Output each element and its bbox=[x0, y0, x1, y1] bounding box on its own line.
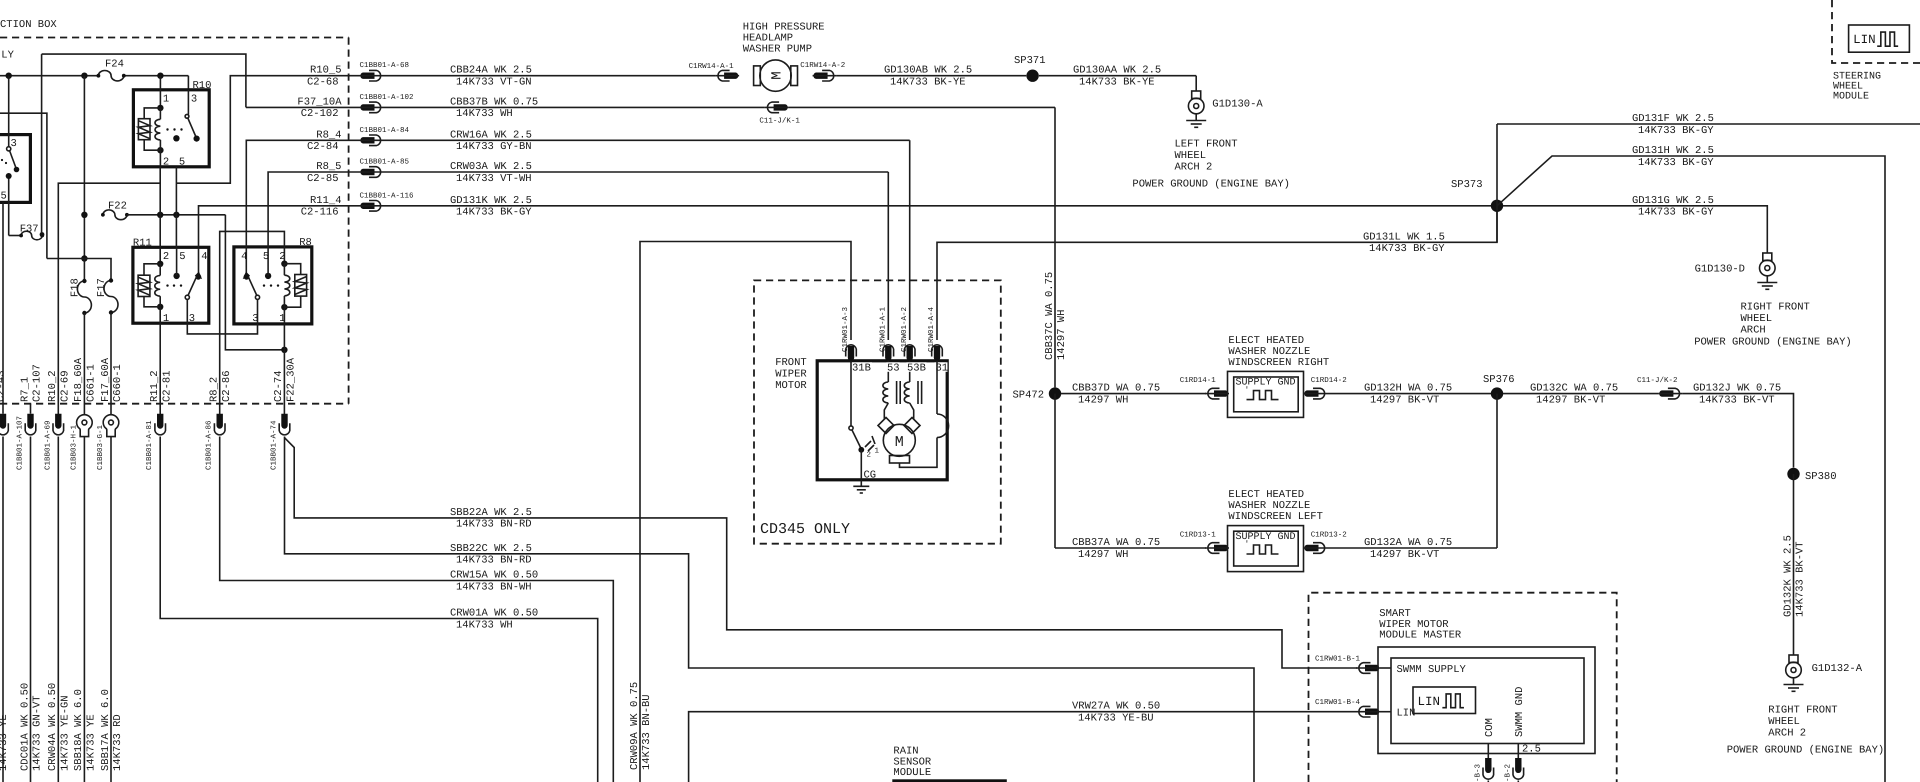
connector C1RD13-1 bbox=[1180, 531, 1229, 554]
splice SP472 bbox=[1012, 387, 1061, 548]
connector C1BB01-A-116 bbox=[360, 191, 415, 211]
svg-text:14K733 GY-BN: 14K733 GY-BN bbox=[456, 141, 532, 153]
svg-text:R10_2: R10_2 bbox=[47, 370, 59, 402]
svg-text:GD131H WK 2.5: GD131H WK 2.5 bbox=[1632, 145, 1714, 157]
svg-text:CRW03A WK 2.5: CRW03A WK 2.5 bbox=[450, 161, 532, 173]
SWMM COM pin bbox=[1484, 718, 1496, 758]
svg-text:GD131K WK 2.5: GD131K WK 2.5 bbox=[450, 195, 532, 207]
wire CBB37B bbox=[384, 96, 765, 120]
svg-text:14K733 YE-BU: 14K733 YE-BU bbox=[1078, 713, 1154, 725]
svg-text:14K733 YE: 14K733 YE bbox=[0, 714, 10, 771]
svg-text:C1RW14-A-1: C1RW14-A-1 bbox=[689, 62, 735, 71]
connector C1RW14-A-1 bbox=[689, 62, 740, 81]
svg-text:SP371: SP371 bbox=[1014, 55, 1046, 67]
svg-text:R8_4: R8_4 bbox=[316, 129, 341, 141]
svg-text:C1BB01-A-69: C1BB01-A-69 bbox=[43, 420, 52, 470]
wire CRW16A bbox=[384, 129, 910, 153]
svg-text:4: 4 bbox=[201, 251, 207, 263]
wire LY supply feed to F37_10A row bbox=[42, 54, 246, 107]
svg-text:C660-1: C660-1 bbox=[112, 364, 124, 402]
svg-text:2: 2 bbox=[163, 251, 169, 263]
svg-text:C2-85: C2-85 bbox=[307, 173, 339, 185]
splice SP380 bbox=[1787, 468, 1836, 483]
connector C1BB01-A-86 bbox=[205, 414, 225, 470]
svg-text:53B: 53B bbox=[907, 363, 926, 375]
svg-text:': ' bbox=[1245, 540, 1250, 549]
rain sensor module bbox=[892, 746, 1007, 782]
svg-text:F18_60A: F18_60A bbox=[73, 357, 85, 402]
svg-text:LIN: LIN bbox=[1418, 695, 1441, 709]
svg-text:53: 53 bbox=[887, 363, 900, 375]
svg-text:C1BB01-A-85: C1BB01-A-85 bbox=[360, 158, 410, 167]
elect heated washer nozzle windscreen left bbox=[1228, 489, 1323, 572]
wire SBB17A bbox=[100, 437, 124, 782]
svg-text:CRW09A WK 0.75: CRW09A WK 0.75 bbox=[629, 682, 641, 770]
svg-text:SP373: SP373 bbox=[1451, 179, 1483, 191]
wire SBB22C run bbox=[285, 437, 1255, 782]
svg-text:C1RW01-B-1: C1RW01-B-1 bbox=[1315, 655, 1361, 664]
svg-text:C1BB01-A-68: C1BB01-A-68 bbox=[360, 61, 410, 70]
svg-text:GD132A WA 0.75: GD132A WA 0.75 bbox=[1364, 537, 1452, 549]
splice SP376 bbox=[1483, 374, 1515, 548]
fuse F37 bbox=[9, 224, 45, 240]
wire main bus y=75.7 bbox=[0, 73, 188, 90]
svg-text:R8: R8 bbox=[299, 237, 312, 249]
svg-text:CTION BOX: CTION BOX bbox=[0, 19, 57, 31]
SWMM GND pin bbox=[1514, 687, 1541, 758]
svg-text:C1RD14-2: C1RD14-2 bbox=[1311, 376, 1347, 385]
svg-text:14K733 BK-GY: 14K733 BK-GY bbox=[1638, 157, 1714, 169]
svg-text:WHEEL: WHEEL bbox=[1741, 313, 1773, 325]
svg-text:14297 WH: 14297 WH bbox=[1078, 394, 1128, 406]
svg-text:CBB37A WA 0.75: CBB37A WA 0.75 bbox=[1072, 537, 1160, 549]
svg-text:14K733 BK-GY: 14K733 BK-GY bbox=[1638, 125, 1714, 137]
connector C1BB01-A-102 bbox=[360, 93, 414, 113]
svg-text:MODULE: MODULE bbox=[1833, 92, 1869, 103]
ground G1D130-A bbox=[1132, 91, 1290, 191]
wire GD131L from motor pin 31 bbox=[937, 206, 1497, 340]
svg-text:SP376: SP376 bbox=[1483, 374, 1515, 386]
wire feed from off-page left bbox=[0, 113, 112, 258]
svg-text:C1BB01-A-86: C1BB01-A-86 bbox=[205, 420, 214, 470]
wire R8 pin1 to C2-74/F22_30A bbox=[283, 324, 285, 414]
svg-text:SWMM GND: SWMM GND bbox=[1514, 687, 1526, 737]
svg-text:F17_60A: F17_60A bbox=[100, 357, 112, 402]
wire CRW03A bbox=[384, 161, 889, 185]
wire motor pin 53 feed bbox=[887, 172, 889, 340]
ground CG bbox=[853, 480, 869, 493]
svg-text:14K733 BN-WH: 14K733 BN-WH bbox=[456, 581, 532, 593]
connector C1BB01-A-81 bbox=[145, 414, 165, 470]
fuse F22 bbox=[101, 201, 129, 220]
svg-text:RIGHT FRONT: RIGHT FRONT bbox=[1768, 705, 1837, 717]
wire F37_10A row label bbox=[246, 96, 360, 120]
svg-text:MODULE MASTER: MODULE MASTER bbox=[1379, 630, 1462, 642]
connector C1RW01-A-3 bbox=[841, 306, 856, 360]
svg-text:CRW01A WK 0.50: CRW01A WK 0.50 bbox=[450, 608, 538, 620]
svg-text:F37: F37 bbox=[20, 224, 39, 236]
svg-text:SBB18A WK 6.0: SBB18A WK 6.0 bbox=[73, 689, 85, 771]
svg-text:F17: F17 bbox=[96, 278, 108, 297]
svg-text:C1BB01-A-116: C1BB01-A-116 bbox=[360, 191, 415, 200]
svg-text:14K733 BN-RD: 14K733 BN-RD bbox=[456, 555, 532, 567]
node LY supply bbox=[1, 49, 14, 61]
svg-text:M: M bbox=[895, 434, 904, 451]
svg-text:C1BB01-A-84: C1BB01-A-84 bbox=[360, 126, 410, 135]
svg-text:C1BB01-A-102: C1BB01-A-102 bbox=[360, 93, 414, 102]
svg-text:C2-102: C2-102 bbox=[301, 108, 339, 120]
svg-text:LIN: LIN bbox=[1853, 33, 1876, 47]
connector C1BB01-A-69 bbox=[43, 414, 63, 470]
CD345 dashed box bbox=[754, 280, 1001, 543]
svg-text:CBB37D WA 0.75: CBB37D WA 0.75 bbox=[1072, 383, 1160, 395]
svg-text:C1RD13-1: C1RD13-1 bbox=[1180, 531, 1217, 540]
wire CRW15A run bbox=[220, 437, 614, 782]
svg-text:C1BB03-H-1: C1BB03-H-1 bbox=[69, 424, 78, 470]
svg-text:14K733 BN-BU: 14K733 BN-BU bbox=[641, 694, 653, 770]
svg-text:R11: R11 bbox=[133, 237, 152, 249]
svg-text:14K733 BK-GY: 14K733 BK-GY bbox=[1369, 243, 1445, 255]
wire CDC01A bbox=[19, 437, 43, 782]
svg-text:WINDSCREEN LEFT: WINDSCREEN LEFT bbox=[1228, 511, 1323, 523]
connector C1RD14-1 bbox=[1180, 376, 1229, 399]
svg-text:R8_2: R8_2 bbox=[209, 377, 221, 402]
svg-text:14K733 VT-GN: 14K733 VT-GN bbox=[456, 77, 532, 89]
svg-text:C2-81: C2-81 bbox=[161, 370, 173, 402]
wire GD132C bbox=[1503, 383, 1658, 407]
wire bus drop to F22/F18 bbox=[81, 76, 87, 262]
front wiper motor bbox=[775, 357, 948, 482]
connector C1RW01-A-4 bbox=[927, 306, 942, 360]
wire motor pin 53B feed bbox=[909, 140, 911, 340]
svg-text:POWER GROUND (ENGINE BAY): POWER GROUND (ENGINE BAY) bbox=[1694, 337, 1852, 349]
connector C1RW01-B-3 bbox=[1473, 758, 1493, 782]
svg-text:F18: F18 bbox=[70, 278, 82, 297]
svg-text:14K733 YE-GN: 14K733 YE-GN bbox=[60, 695, 72, 771]
wire GD131F bbox=[1497, 113, 1920, 137]
wire R8_5 row label bbox=[307, 161, 342, 185]
svg-text:ARCH: ARCH bbox=[1741, 325, 1766, 337]
svg-text:C2-43: C2-43 bbox=[0, 370, 7, 402]
svg-text:FRONT: FRONT bbox=[775, 357, 807, 369]
svg-text:C2-68: C2-68 bbox=[307, 77, 339, 89]
wire SBB18A bbox=[73, 437, 97, 782]
svg-text:C1RW01-A-4: C1RW01-A-4 bbox=[927, 306, 936, 352]
svg-text:POWER GROUND (ENGINE BAY): POWER GROUND (ENGINE BAY) bbox=[1727, 745, 1885, 757]
wire R8 pin5 to R8_5 row bbox=[268, 172, 359, 247]
wire CBB37C bbox=[789, 107, 1069, 387]
svg-text:-B-2: -B-2 bbox=[1503, 764, 1512, 782]
splice SP373 bbox=[1451, 124, 1503, 242]
wire F22 bus bbox=[127, 212, 288, 353]
svg-text:CBB37B WK 0.75: CBB37B WK 0.75 bbox=[450, 96, 538, 108]
splice SP371 bbox=[1014, 55, 1046, 82]
svg-text:CDC01A WK 0.50: CDC01A WK 0.50 bbox=[19, 683, 31, 771]
wire R10 pin5 to R10_5 row bbox=[176, 76, 359, 215]
svg-text:CRW15A WK 0.50: CRW15A WK 0.50 bbox=[450, 570, 538, 582]
svg-text:CD345 ONLY: CD345 ONLY bbox=[760, 521, 850, 538]
svg-text:M: M bbox=[770, 71, 786, 79]
wire GD132K bbox=[1782, 474, 1806, 655]
svg-text:14K733 YE: 14K733 YE bbox=[86, 714, 98, 771]
svg-text:C1RW01-A-1: C1RW01-A-1 bbox=[879, 306, 888, 352]
steering wheel module dashed box bbox=[1832, 0, 1920, 103]
wire R11_4 row label bbox=[301, 195, 342, 219]
wire R8_4 row label bbox=[307, 129, 342, 153]
connector C1RD13-2 bbox=[1304, 531, 1347, 554]
wire GD132H bbox=[1328, 383, 1498, 407]
svg-text:C1RW14-A-2: C1RW14-A-2 bbox=[800, 61, 845, 70]
svg-text:14297 BK-VT: 14297 BK-VT bbox=[1370, 549, 1439, 561]
relay R7 (partial at left edge) bbox=[0, 76, 30, 236]
svg-text:R11_2: R11_2 bbox=[149, 370, 161, 402]
wire CBB37A bbox=[1055, 537, 1206, 561]
svg-text:GD132C WA 0.75: GD132C WA 0.75 bbox=[1530, 383, 1618, 395]
connector C1RW01-B-4 bbox=[1315, 698, 1380, 717]
svg-text:1: 1 bbox=[163, 313, 169, 325]
svg-text:14K733 WH: 14K733 WH bbox=[456, 619, 513, 631]
svg-text:POWER GROUND (ENGINE BAY): POWER GROUND (ENGINE BAY) bbox=[1132, 179, 1290, 191]
svg-text:C2-69: C2-69 bbox=[60, 370, 72, 402]
svg-text:C2-74: C2-74 bbox=[273, 370, 285, 402]
connector C1BB01-A-74 bbox=[270, 414, 290, 470]
svg-text:GD131F WK 2.5: GD131F WK 2.5 bbox=[1632, 113, 1714, 125]
wire GD131H bbox=[1497, 145, 1885, 782]
connector C1BB01-A-107 bbox=[16, 404, 36, 470]
relay R11 bbox=[133, 237, 209, 325]
svg-text:2: 2 bbox=[867, 451, 872, 460]
svg-text:G1D130-D: G1D130-D bbox=[1695, 264, 1745, 276]
wire R8 pin4 to R8_4 row bbox=[246, 140, 359, 247]
svg-text:14K733 BK-VT: 14K733 BK-VT bbox=[1795, 541, 1807, 617]
svg-text:14K733 BK-GY: 14K733 BK-GY bbox=[1638, 207, 1714, 219]
connector C2-43 (partial) bbox=[0, 414, 10, 782]
svg-text:C1RW01-B-4: C1RW01-B-4 bbox=[1315, 698, 1361, 707]
svg-text:14K733 VT-WH: 14K733 VT-WH bbox=[456, 173, 532, 185]
svg-text:1: 1 bbox=[875, 448, 880, 456]
svg-text:MOTOR: MOTOR bbox=[775, 380, 807, 392]
wire CRW09A to motor pin 31B bbox=[629, 242, 851, 782]
svg-text:GD131L WK 1.5: GD131L WK 1.5 bbox=[1363, 231, 1445, 243]
wire VRW27A bbox=[689, 701, 1356, 782]
svg-text:3: 3 bbox=[189, 313, 195, 325]
svg-text:COM: COM bbox=[1484, 718, 1496, 737]
svg-text:MODULE: MODULE bbox=[893, 767, 931, 779]
svg-text:14K733 BK-VT: 14K733 BK-VT bbox=[1699, 394, 1775, 406]
svg-text:C2-86: C2-86 bbox=[221, 370, 233, 402]
relay R10 bbox=[133, 76, 211, 169]
svg-text:GD130AA WK 2.5: GD130AA WK 2.5 bbox=[1073, 65, 1161, 77]
svg-text:14K733 RD: 14K733 RD bbox=[112, 714, 124, 771]
ground G1D130-D bbox=[1694, 253, 1852, 349]
svg-text:CBB24A WK 2.5: CBB24A WK 2.5 bbox=[450, 65, 532, 77]
wire GD131G bbox=[1503, 195, 1767, 253]
svg-text:WHEEL: WHEEL bbox=[1768, 716, 1800, 728]
svg-text:SBB17A WK 6.0: SBB17A WK 6.0 bbox=[100, 689, 112, 771]
connector C1RW01-B-2 bbox=[1503, 758, 1523, 782]
wire R10 pin2 to C2-69 and F22 bus bbox=[58, 167, 160, 414]
svg-text:R8_5: R8_5 bbox=[316, 161, 341, 173]
svg-text:SWMM SUPPLY: SWMM SUPPLY bbox=[1397, 664, 1467, 676]
svg-text:G1D130-A: G1D130-A bbox=[1212, 99, 1263, 111]
junction box dashed border bbox=[0, 19, 349, 404]
wire GD132J bbox=[1682, 383, 1793, 468]
wire GD130AB bbox=[837, 65, 1027, 89]
svg-text:R11_4: R11_4 bbox=[310, 195, 342, 207]
svg-text:14297 BK-VT: 14297 BK-VT bbox=[1370, 394, 1439, 406]
wire R11 pin1 to C2-81 bbox=[159, 323, 161, 414]
connector C1RW14-A-2 bbox=[800, 61, 845, 81]
elect heated washer nozzle windscreen right bbox=[1228, 335, 1330, 418]
wire R10_5 row label bbox=[307, 65, 342, 89]
wire CRW04A bbox=[47, 437, 71, 782]
svg-text:14K733 BK-GY: 14K733 BK-GY bbox=[456, 207, 532, 219]
svg-text:31B: 31B bbox=[852, 363, 871, 375]
wire CRW01A run bbox=[160, 437, 598, 782]
svg-text:F22: F22 bbox=[108, 201, 127, 213]
svg-text:WIPER: WIPER bbox=[775, 369, 807, 381]
svg-text:WHEEL: WHEEL bbox=[1175, 150, 1207, 162]
LIN symbol in SWMM bbox=[1413, 687, 1476, 714]
svg-text:R10: R10 bbox=[193, 80, 212, 92]
svg-text:C661-1: C661-1 bbox=[86, 364, 98, 402]
svg-text:14297 WH: 14297 WH bbox=[1056, 310, 1068, 360]
wire GD131K bbox=[384, 195, 1498, 219]
svg-text:-B-3: -B-3 bbox=[1473, 763, 1482, 782]
wire SBB22A run bbox=[285, 438, 1358, 668]
connector C1BB03-G-1 eyelet bbox=[96, 415, 119, 470]
connector C1RD14-2 bbox=[1304, 376, 1347, 399]
svg-text:C1RD13-2: C1RD13-2 bbox=[1311, 531, 1347, 540]
svg-text:C1BB01-A-74: C1BB01-A-74 bbox=[270, 420, 279, 470]
svg-text:WINDSCREEN RIGHT: WINDSCREEN RIGHT bbox=[1228, 357, 1329, 369]
svg-text:14K733 BK-YE: 14K733 BK-YE bbox=[890, 77, 966, 89]
wire F37 to LY corner bbox=[41, 54, 43, 233]
svg-text:5: 5 bbox=[179, 157, 185, 169]
svg-text:C1BB03-G-1: C1BB03-G-1 bbox=[96, 424, 105, 470]
svg-text:C11-J/K-1: C11-J/K-1 bbox=[759, 116, 800, 125]
svg-text:SP472: SP472 bbox=[1012, 390, 1044, 402]
svg-text:C2-107: C2-107 bbox=[32, 364, 44, 402]
svg-text:ARCH 2: ARCH 2 bbox=[1768, 728, 1806, 740]
svg-text:SBB22C WK 2.5: SBB22C WK 2.5 bbox=[450, 543, 532, 555]
svg-text:C11-J/K-2: C11-J/K-2 bbox=[1637, 376, 1678, 385]
svg-text:14297 BK-VT: 14297 BK-VT bbox=[1536, 394, 1605, 406]
wire CBB37D bbox=[1061, 383, 1206, 407]
svg-text:14K733 BN-RD: 14K733 BN-RD bbox=[456, 519, 532, 531]
svg-text:GD132K WK 2.5: GD132K WK 2.5 bbox=[1782, 535, 1794, 617]
svg-text:1: 1 bbox=[163, 94, 169, 106]
connector C1BB03-H-1 eyelet bbox=[69, 415, 92, 470]
svg-text:F24: F24 bbox=[105, 59, 124, 71]
connector C1BB01-A-85 bbox=[360, 158, 410, 178]
svg-text:C1BB01-A-81: C1BB01-A-81 bbox=[145, 420, 154, 470]
svg-text:ARCH 2: ARCH 2 bbox=[1175, 162, 1213, 174]
svg-text:CG: CG bbox=[864, 470, 877, 482]
svg-text:LEFT FRONT: LEFT FRONT bbox=[1175, 139, 1238, 151]
svg-text:2.5: 2.5 bbox=[1522, 744, 1541, 756]
svg-text:R10_5: R10_5 bbox=[310, 65, 342, 77]
ground G1D132-A bbox=[1727, 655, 1885, 757]
svg-text:F22_30A: F22_30A bbox=[286, 357, 298, 402]
svg-text:WASHER PUMP: WASHER PUMP bbox=[743, 44, 812, 56]
wire R7 coil pin to C2-43 bbox=[0, 202, 7, 413]
fuse F18 bbox=[70, 259, 92, 415]
fuse F17 bbox=[96, 259, 118, 415]
connector C1BB01-A-84 bbox=[360, 126, 410, 146]
wire R8 pin3 to R11 pin3 link bbox=[187, 323, 257, 334]
svg-text:14K733 BK-YE: 14K733 BK-YE bbox=[1079, 77, 1155, 89]
svg-text:14K733 GN-VT: 14K733 GN-VT bbox=[32, 695, 44, 771]
svg-text:LY: LY bbox=[1, 49, 14, 61]
relay R8 bbox=[234, 237, 312, 325]
connector C1BB01-A-68 bbox=[360, 61, 410, 81]
svg-text:C1BB01-A-107: C1BB01-A-107 bbox=[16, 416, 25, 470]
svg-text:SP380: SP380 bbox=[1805, 471, 1837, 483]
svg-text:14297 WH: 14297 WH bbox=[1078, 549, 1128, 561]
svg-text:5: 5 bbox=[179, 251, 185, 263]
svg-text:CBB37C WA 0.75: CBB37C WA 0.75 bbox=[1044, 272, 1056, 360]
junction box pin labels bbox=[19, 357, 297, 402]
SWMM module box bbox=[1378, 647, 1595, 754]
svg-text:CRW16A WK 2.5: CRW16A WK 2.5 bbox=[450, 129, 532, 141]
svg-text:G1D132-A: G1D132-A bbox=[1812, 663, 1863, 675]
LIN symbol in steering wheel module bbox=[1849, 25, 1910, 52]
svg-text:GD131G WK 2.5: GD131G WK 2.5 bbox=[1632, 195, 1714, 207]
svg-text:SBB22A WK 2.5: SBB22A WK 2.5 bbox=[450, 507, 532, 519]
high pressure headlamp washer pump motor bbox=[743, 22, 825, 92]
svg-text:2: 2 bbox=[163, 157, 169, 169]
wire GD130AA bbox=[1039, 65, 1196, 91]
svg-text:C1RD14-1: C1RD14-1 bbox=[1180, 376, 1217, 385]
svg-text:C2-84: C2-84 bbox=[307, 141, 339, 153]
svg-text:3: 3 bbox=[191, 94, 197, 106]
svg-text:GD132H WA 0.75: GD132H WA 0.75 bbox=[1364, 383, 1452, 395]
wire GD132A bbox=[1328, 537, 1498, 561]
smart wiper motor module master dashed box bbox=[1309, 593, 1617, 782]
svg-text:RIGHT FRONT: RIGHT FRONT bbox=[1741, 302, 1810, 314]
connector C1RW01-A-1 bbox=[879, 306, 894, 360]
svg-text:GD132J WK 0.75: GD132J WK 0.75 bbox=[1693, 383, 1781, 395]
svg-text:VRW27A WK 0.50: VRW27A WK 0.50 bbox=[1072, 701, 1160, 713]
wire R11 pin2/pin5 feeds from F22 bus bbox=[160, 215, 176, 248]
connector C1RW01-B-1 bbox=[1315, 655, 1380, 674]
svg-text:C1RW01-A-2: C1RW01-A-2 bbox=[900, 307, 909, 352]
svg-text:5: 5 bbox=[1, 191, 7, 203]
svg-text:R7_1: R7_1 bbox=[19, 377, 31, 402]
svg-text:14K733 WH: 14K733 WH bbox=[456, 108, 513, 120]
wire CBB24A bbox=[384, 65, 716, 89]
fuse F24 bbox=[97, 59, 126, 81]
svg-text:C2-116: C2-116 bbox=[301, 207, 339, 219]
svg-text:GD130AB WK 2.5: GD130AB WK 2.5 bbox=[884, 65, 972, 77]
svg-text:CRW04A WK 0.50: CRW04A WK 0.50 bbox=[47, 683, 59, 771]
connector C11-J/K-1 bbox=[759, 102, 800, 125]
svg-text:': ' bbox=[1245, 386, 1250, 395]
wire R8 pin2 to C2-86 bbox=[220, 231, 285, 414]
svg-text:C1RW01-A-3: C1RW01-A-3 bbox=[841, 306, 850, 352]
connector C1RW01-A-2 bbox=[900, 307, 915, 361]
wire R11 pin4 to R11_4 row bbox=[199, 206, 360, 248]
connector C11-J/K-2 bbox=[1637, 376, 1682, 399]
